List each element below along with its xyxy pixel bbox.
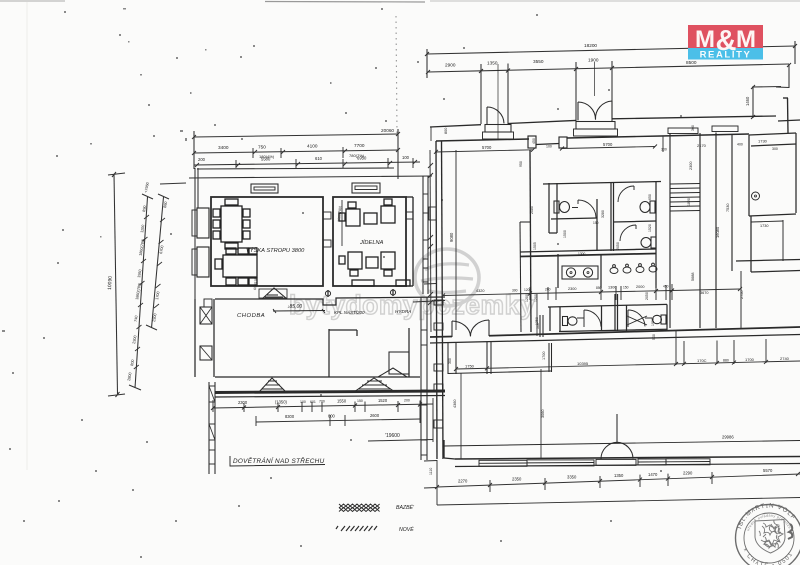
svg-text:1520: 1520 [378,398,388,403]
svg-text:REALITY: REALITY [700,50,752,61]
svg-text:2000: 2000 [636,285,644,289]
svg-text:4100: 4100 [307,144,318,149]
svg-text:300: 300 [512,289,518,293]
svg-text:100: 100 [546,145,552,149]
svg-text:750: 750 [258,145,266,150]
svg-text:2800: 2800 [127,372,132,381]
svg-text:650: 650 [648,194,652,200]
svg-text:1820: 1820 [687,198,691,206]
svg-text:1110: 1110 [429,468,433,475]
svg-text:2300: 2300 [238,400,248,405]
svg-text:1505: 1505 [533,242,537,250]
svg-text:úředně ovládány pro pozemní st: úředně ovládány pro pozemní sta [0,0,794,535]
svg-text:601: 601 [310,400,316,404]
svg-text:5570: 5570 [763,468,773,473]
svg-text:2900: 2900 [445,63,456,68]
svg-text:7700: 7700 [354,143,365,148]
svg-text:8300: 8300 [285,414,295,419]
svg-text:860: 860 [163,201,168,208]
svg-text:200: 200 [198,157,206,162]
svg-text:740: 740 [134,315,139,322]
svg-text:7530: 7530 [726,204,730,212]
svg-text:5700: 5700 [482,145,492,150]
svg-text:610: 610 [315,156,323,161]
svg-text:600: 600 [328,413,336,418]
svg-text:100: 100 [300,400,306,404]
svg-text:300: 300 [661,148,667,152]
svg-text:950: 950 [519,161,523,167]
svg-text:2300: 2300 [152,313,157,322]
svg-text:1350: 1350 [487,61,498,66]
svg-text:NOVÉ: NOVÉ [399,526,414,533]
svg-text:1350: 1350 [614,473,624,478]
svg-text:1700: 1700 [155,291,160,300]
svg-text:16080: 16080 [715,226,720,238]
svg-text:DOVĚTRÁNÍ NAD STŘECHU: DOVĚTRÁNÍ NAD STŘECHU [233,456,325,465]
svg-text:2740: 2740 [780,356,790,361]
svg-text:150: 150 [593,221,599,225]
svg-text:1750: 1750 [465,363,475,368]
svg-text:700: 700 [319,400,325,404]
svg-text:100: 100 [402,155,410,160]
svg-text:18200: 18200 [584,43,597,48]
svg-text:150: 150 [623,285,629,289]
svg-text:170C: 170C [697,358,707,363]
svg-text:20060: 20060 [381,128,394,133]
svg-text:850: 850 [596,286,602,290]
svg-text:500: 500 [652,334,656,340]
svg-text:2270: 2270 [458,479,468,484]
svg-text:600/100: 600/100 [253,277,258,290]
svg-text:1200: 1200 [524,288,532,292]
svg-text:VÝŠKA STROPU 3800: VÝŠKA STROPU 3800 [246,247,305,254]
svg-text:200: 200 [404,399,410,403]
svg-text:1920: 1920 [651,318,655,326]
svg-text:3400: 3400 [218,145,229,150]
svg-text:2350: 2350 [512,477,522,482]
svg-text:2290: 2290 [683,471,693,476]
svg-text:1700: 1700 [745,357,755,362]
svg-text:1100: 1100 [140,224,145,233]
svg-text:400: 400 [737,143,743,147]
svg-text:5688: 5688 [691,273,695,281]
svg-text:′19600: ′19600 [385,433,400,439]
svg-text:800: 800 [444,128,448,134]
svg-text:1550: 1550 [337,399,347,404]
svg-text:+7960: +7960 [144,182,150,193]
svg-text:1470: 1470 [648,472,658,477]
svg-text:450: 450 [663,284,669,288]
svg-text:3280: 3280 [601,210,605,218]
svg-text:CHODBA: CHODBA [237,313,265,319]
svg-text:150: 150 [357,399,363,403]
svg-text:200: 200 [545,288,551,292]
svg-text:3350: 3350 [567,475,577,480]
svg-text:4320: 4320 [476,289,484,293]
svg-text:KPL.NÁSTľ200: KPL.NÁSTľ200 [334,309,365,315]
svg-text:JÍDELNA: JÍDELNA [359,239,384,246]
svg-text:3060: 3060 [541,410,545,418]
svg-text:1500: 1500 [563,230,567,238]
svg-text:29986: 29986 [722,435,734,440]
svg-text:1300: 1300 [608,286,616,290]
svg-text:300: 300 [448,358,452,364]
svg-text:5700: 5700 [603,142,613,147]
svg-text:800: 800 [130,359,135,366]
svg-text:6700: 6700 [159,245,164,254]
svg-text:300: 300 [691,125,695,131]
svg-text:4360: 4360 [453,400,457,408]
svg-text:1460: 1460 [745,96,750,106]
svg-text:9080: 9080 [449,232,454,242]
svg-text:1900: 1900 [588,58,599,63]
svg-text:1730: 1730 [760,224,768,228]
svg-text:2170: 2170 [697,143,707,148]
svg-text:2300: 2300 [689,162,693,170]
svg-text:1200: 1200 [525,294,529,302]
svg-text:880: 880 [723,358,729,362]
svg-text:2300: 2300 [568,287,576,291]
svg-text:× CHʌTĚ • 0501: × CHʌTĚ • 0501 [741,547,795,565]
svg-text:5500: 5500 [261,157,271,162]
svg-text:1730: 1730 [758,139,768,144]
svg-text:1300: 1300 [578,252,586,256]
svg-text:10395: 10395 [577,361,589,366]
svg-text:2080: 2080 [530,206,534,214]
svg-text:1520: 1520 [648,224,652,232]
svg-text:2050: 2050 [616,242,620,250]
svg-text:8500: 8500 [686,60,697,65]
svg-text:3550: 3550 [533,59,544,64]
svg-text:300: 300 [772,147,778,151]
svg-text:3670: 3670 [700,291,708,295]
svg-text:2600: 2600 [370,413,380,418]
svg-text:2300: 2300 [132,335,137,344]
svg-text:2050: 2050 [645,292,649,300]
svg-text:6950: 6950 [357,156,367,161]
svg-text:1700: 1700 [542,352,546,360]
svg-text:450: 450 [532,138,536,144]
svg-text:(1350): (1350) [275,400,287,405]
svg-text:HYDRA: HYDRA [395,309,411,314]
svg-text:1550: 1550 [137,269,142,278]
svg-text:↓85,00: ↓85,00 [287,304,302,310]
svg-text:10090: 10090 [107,276,114,290]
svg-text:BAZBÉ′: BAZBÉ′ [396,504,415,511]
